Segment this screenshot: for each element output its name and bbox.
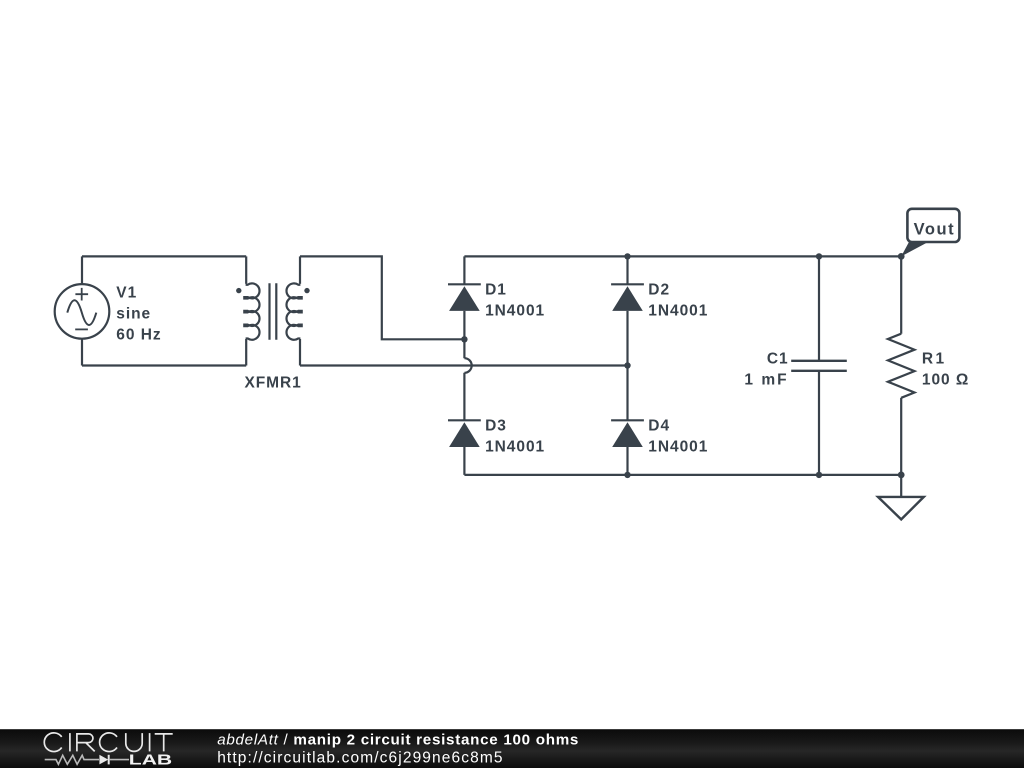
- junction D4 bottom rail: [624, 472, 630, 478]
- wire primary top rail: [82, 255, 246, 257]
- wire primary coil bottom lead: [245, 339, 247, 366]
- junction ground bottom rail: [898, 472, 905, 479]
- wire R1 top lead: [900, 256, 902, 333]
- diode D4: [611, 420, 644, 447]
- wire primary coil top lead: [245, 256, 247, 283]
- wire hop over mid rail: [464, 358, 471, 373]
- junction C1 bottom rail: [816, 472, 822, 478]
- svg-text:D3: D3: [485, 418, 507, 435]
- footer bar: [0, 729, 1024, 768]
- svg-text:LAB: LAB: [129, 753, 172, 768]
- transformer core: [270, 283, 277, 339]
- logo resistor-diode symbol: [45, 755, 129, 765]
- junction C1 top rail: [816, 253, 822, 259]
- node Vout anchor dot: [898, 253, 905, 260]
- wire bridge top rail: [464, 255, 901, 257]
- secondary phase dot: [304, 288, 309, 293]
- svg-text:http://circuitlab.com/c6j299ne: http://circuitlab.com/c6j299ne6c8m5: [217, 749, 503, 766]
- diode D3: [448, 420, 481, 447]
- transformer XFMR1 secondary coil: [286, 283, 301, 339]
- svg-text:XFMR1: XFMR1: [244, 375, 301, 392]
- resistor R1 zigzag: [888, 334, 915, 398]
- svg-text:R1: R1: [922, 350, 947, 367]
- svg-text:Vout: Vout: [914, 220, 956, 238]
- svg-text:D2: D2: [648, 282, 670, 299]
- junction D2-D4 midpoint: [624, 362, 630, 368]
- svg-text:V1: V1: [116, 284, 137, 301]
- wire secondary coil top lead: [299, 256, 301, 283]
- wire secondary bottom mid rail: [300, 364, 628, 366]
- svg-text:abdelAtt / manip 2 circuit res: abdelAtt / manip 2 circuit resistance 10…: [217, 731, 579, 748]
- svg-text:1N4001: 1N4001: [648, 303, 708, 320]
- diode D1: [448, 284, 481, 311]
- wire secondary top to bridge midpoint: [300, 256, 464, 339]
- wire D1 anode-cathode column: [463, 256, 465, 358]
- svg-text:1N4001: 1N4001: [485, 439, 545, 456]
- capacitor C1 plates: [791, 361, 847, 371]
- svg-text:C1: C1: [767, 350, 789, 367]
- wire D3 column: [463, 373, 465, 475]
- wire primary bottom rail: [82, 364, 246, 366]
- diode D2: [611, 284, 644, 311]
- wire V1 top stub: [81, 256, 83, 284]
- svg-text:1N4001: 1N4001: [485, 303, 545, 320]
- wire ground stem: [900, 475, 902, 497]
- wire D4 column: [626, 366, 628, 475]
- svg-text:100 Ω: 100 Ω: [922, 372, 969, 389]
- primary phase dot: [236, 288, 241, 293]
- logo CIRCUIT letters: [44, 733, 172, 752]
- svg-text:60 Hz: 60 Hz: [116, 327, 161, 344]
- wire secondary coil bottom lead: [299, 339, 301, 366]
- wire C1 leads: [818, 256, 820, 475]
- svg-text:1N4001: 1N4001: [648, 439, 708, 456]
- ground: [878, 497, 924, 520]
- junction secondary to D1-D3 midpoint: [461, 336, 467, 342]
- wire R1 bottom lead: [900, 398, 902, 475]
- transformer XFMR1 primary coil: [244, 283, 259, 339]
- voltage source V1: [55, 284, 110, 339]
- wire bridge bottom rail: [464, 474, 901, 476]
- logo diode triangle: [99, 755, 108, 765]
- svg-text:sine: sine: [116, 306, 151, 323]
- svg-text:1 mF: 1 mF: [744, 372, 788, 389]
- svg-text:D1: D1: [485, 282, 507, 299]
- wire D2 column: [626, 256, 628, 365]
- wire V1 bottom stub: [81, 339, 83, 366]
- svg-text:D4: D4: [648, 418, 670, 435]
- node Vout flag: [901, 209, 959, 257]
- junction D2 top rail: [624, 253, 630, 259]
